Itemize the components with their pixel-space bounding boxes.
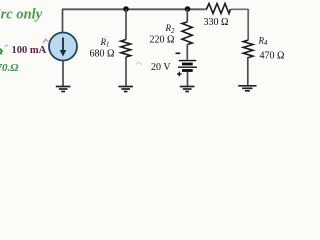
- wire top rail right segment: [231, 8, 248, 10]
- svg-text:Irc only: Irc only: [0, 7, 43, 23]
- resistor R2 220 ohm: [182, 22, 192, 45]
- ground below battery: [180, 87, 195, 92]
- wire R1 bottom lead: [125, 57, 127, 86]
- svg-text:470 Ω: 470 Ω: [260, 51, 285, 62]
- wire R1 top lead: [125, 9, 127, 40]
- svg-text:70.Ω: 70.Ω: [0, 62, 19, 74]
- node junction dot R1: [123, 6, 129, 12]
- wire R2 top lead: [186, 9, 188, 22]
- resistor R1 680 ohm: [121, 40, 131, 58]
- wire current-source bottom lead: [62, 61, 64, 87]
- ground below R4: [238, 86, 256, 91]
- svg-text:680 Ω: 680 Ω: [90, 49, 115, 60]
- battery V1 20 V: [178, 61, 197, 71]
- svg-text:100 mA: 100 mA: [12, 45, 47, 56]
- wire R2 to battery: [186, 45, 188, 60]
- resistor 330 ohm horizontal: [207, 4, 231, 14]
- annotation pink dash fragment left edge: [5, 45, 9, 47]
- svg-text:330 Ω: 330 Ω: [204, 17, 229, 28]
- battery plus sign: [177, 72, 182, 77]
- wire R4 bottom lead: [247, 57, 249, 85]
- svg-text:20 V: 20 V: [151, 62, 171, 73]
- annotation green scribble fragment left edge: [0, 48, 2, 54]
- annotation faint green mark: [136, 62, 142, 65]
- battery minus sign: [176, 52, 181, 54]
- ground below R1: [118, 87, 133, 92]
- ground below current source: [56, 87, 71, 92]
- annotation pink tick near source: [43, 40, 49, 44]
- current source I1 100 mA: [49, 33, 77, 61]
- resistor R4 470 ohm: [243, 40, 253, 58]
- wire R4 top lead: [247, 9, 249, 40]
- wire top rail left segment: [62, 8, 207, 10]
- svg-text:220 Ω: 220 Ω: [150, 35, 175, 46]
- wire battery bottom lead: [187, 72, 189, 86]
- node junction dot R2: [185, 6, 191, 12]
- wire current-source top lead: [62, 9, 64, 33]
